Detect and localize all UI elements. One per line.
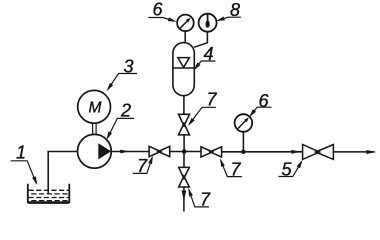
gauge 6 (pressure gauge on accumulator): [177, 15, 194, 32]
label 7b (top valve): [188, 90, 218, 127]
label 6b (line gauge): [249, 91, 272, 117]
wire cross junction down to valve 7d: [183, 152, 185, 168]
wire suction pipe from tank to pump: [48, 152, 77, 195]
accumulator 4: [173, 43, 194, 96]
node junction under gauge 6b: [241, 149, 246, 154]
valve 5: [303, 145, 334, 160]
label 7c (right valve): [220, 158, 242, 179]
label 6 (top gauge): [148, 0, 176, 22]
svg-text:7: 7: [207, 90, 218, 110]
wire accumulator to valve 7c: [183, 96, 185, 115]
valve 7c (vertical, above junction): [179, 114, 190, 135]
label 8 (thermometer): [216, 0, 241, 21]
svg-text:6: 6: [153, 0, 164, 20]
label 7a (left valve): [133, 156, 153, 177]
svg-text:2: 2: [120, 101, 131, 121]
valve 7b (right, on main line): [201, 147, 222, 157]
label 1 (tank): [11, 143, 38, 186]
label 3 (motor): [107, 57, 137, 92]
label 4 (accumulator): [194, 44, 216, 71]
valve 7a (left, on main line): [149, 146, 170, 156]
svg-text:6: 6: [259, 91, 270, 111]
pump 2: [78, 134, 112, 168]
flow arrow at line end: [366, 150, 376, 154]
wire valve 7a to cross junction: [170, 151, 201, 153]
flow arrow before valve 5: [291, 150, 301, 154]
thermometer 8: [199, 14, 217, 32]
tank 1: [28, 184, 70, 203]
node cross junction: [182, 149, 187, 154]
svg-text:1: 1: [16, 143, 26, 163]
wire pump outlet to valve 7a: [111, 151, 149, 153]
label 5 (valve 5): [278, 160, 302, 180]
wire gauge 6 to accumulator top: [184, 31, 186, 43]
wire valve 7b to valve 5: [222, 151, 303, 153]
label 2 (pump): [106, 101, 134, 140]
wire shaft coupling motor-pump: [93, 123, 97, 135]
svg-text:M: M: [89, 99, 102, 116]
motor 3: [78, 90, 111, 123]
valve 7d (vertical, below junction): [179, 167, 190, 187]
wire outlet line after valve 5: [333, 151, 374, 153]
gauge 6b (pressure gauge on main line): [235, 114, 253, 132]
wire valve 7c to cross junction: [183, 135, 185, 152]
wire gauge 6b to main line: [242, 132, 244, 152]
flow arrow drain down: [182, 190, 187, 200]
wire thermometer 8 to accumulator shoulder: [194, 32, 207, 48]
wire drain line below valve 7d: [183, 187, 185, 212]
flow arrow after pump: [120, 150, 130, 154]
label 7d (bottom valve): [188, 188, 211, 210]
